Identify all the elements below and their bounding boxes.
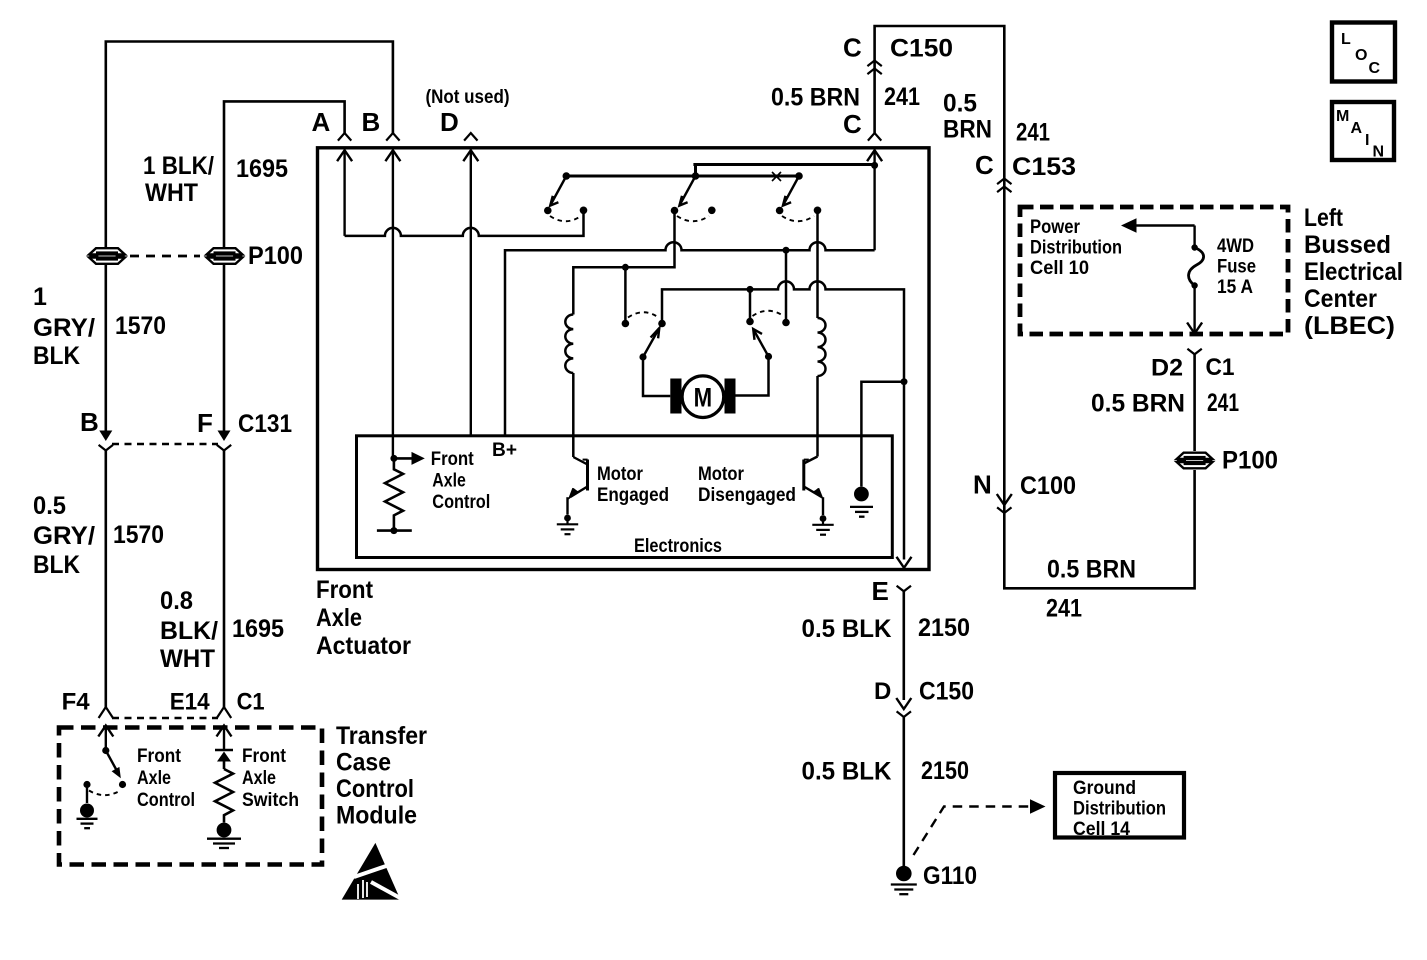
svg-text:BLK: BLK — [33, 342, 80, 370]
svg-text:1570: 1570 — [113, 521, 164, 549]
svg-text:WHT: WHT — [145, 179, 198, 207]
svg-text:Module: Module — [336, 802, 417, 830]
svg-text:Case: Case — [336, 749, 391, 777]
svg-text:GRY/: GRY/ — [33, 522, 95, 550]
svg-text:C1: C1 — [1206, 354, 1235, 381]
svg-text:BLK: BLK — [33, 551, 80, 579]
svg-text:D: D — [874, 678, 891, 705]
svg-text:D2: D2 — [1151, 355, 1183, 382]
svg-text:P100: P100 — [1222, 447, 1278, 475]
svg-text:Axle: Axle — [432, 471, 466, 492]
svg-text:(LBEC): (LBEC) — [1304, 312, 1395, 340]
svg-text:Power: Power — [1030, 217, 1081, 238]
svg-text:GRY/: GRY/ — [33, 314, 95, 342]
svg-text:Control: Control — [336, 775, 414, 803]
svg-text:B: B — [362, 107, 381, 137]
svg-text:241: 241 — [1016, 119, 1050, 147]
svg-text:Distribution: Distribution — [1073, 799, 1166, 820]
svg-text:N: N — [1373, 144, 1385, 161]
svg-text:0.5: 0.5 — [33, 492, 66, 520]
svg-text:Fuse: Fuse — [1217, 257, 1256, 278]
svg-text:B+: B+ — [492, 440, 517, 461]
svg-text:Left: Left — [1304, 204, 1344, 232]
svg-text:0.5 BRN: 0.5 BRN — [1091, 390, 1185, 418]
svg-text:C: C — [1369, 60, 1381, 77]
svg-text:Motor: Motor — [597, 464, 644, 485]
svg-text:Control: Control — [432, 492, 490, 513]
svg-text:Switch: Switch — [242, 790, 299, 811]
svg-text:1570: 1570 — [115, 312, 166, 340]
svg-text:Disengaged: Disengaged — [698, 485, 796, 506]
svg-text:Electrical: Electrical — [1304, 258, 1403, 286]
svg-text:C: C — [975, 150, 994, 180]
svg-text:0.5 BLK: 0.5 BLK — [802, 615, 892, 643]
svg-text:15 A: 15 A — [1217, 277, 1253, 298]
svg-text:1 BLK/: 1 BLK/ — [143, 152, 214, 180]
svg-text:F: F — [197, 408, 213, 438]
svg-text:P100: P100 — [248, 242, 303, 270]
svg-text:Motor: Motor — [698, 464, 745, 485]
svg-text:4WD: 4WD — [1217, 236, 1254, 257]
svg-text:Center: Center — [1304, 285, 1377, 313]
svg-text:C1: C1 — [237, 689, 265, 716]
svg-text:C131: C131 — [238, 410, 292, 438]
svg-text:Front: Front — [316, 576, 374, 604]
svg-text:Front: Front — [242, 746, 287, 767]
svg-text:D: D — [440, 107, 459, 137]
svg-text:Ground: Ground — [1073, 778, 1136, 799]
svg-text:2150: 2150 — [918, 614, 970, 642]
svg-text:Engaged: Engaged — [597, 485, 669, 506]
svg-text:G110: G110 — [923, 862, 977, 890]
svg-text:BLK/: BLK/ — [160, 617, 218, 645]
svg-text:M: M — [1336, 108, 1349, 125]
svg-text:1: 1 — [33, 283, 47, 311]
svg-text:241: 241 — [1046, 595, 1082, 623]
svg-text:Front: Front — [431, 449, 475, 470]
svg-text:C153: C153 — [1012, 153, 1076, 181]
svg-text:Actuator: Actuator — [316, 632, 411, 660]
svg-text:A: A — [1351, 120, 1363, 137]
svg-text:1695: 1695 — [232, 615, 284, 643]
svg-text:0.5 BRN: 0.5 BRN — [771, 84, 860, 112]
svg-text:1695: 1695 — [236, 155, 288, 183]
svg-text:Transfer: Transfer — [336, 722, 427, 750]
svg-text:Cell 14: Cell 14 — [1073, 819, 1130, 840]
svg-text:0.5: 0.5 — [943, 90, 977, 118]
svg-text:WHT: WHT — [160, 645, 215, 673]
svg-text:241: 241 — [884, 83, 920, 111]
svg-text:241: 241 — [1207, 389, 1239, 417]
svg-text:2150: 2150 — [921, 757, 969, 785]
svg-text:0.8: 0.8 — [160, 587, 193, 615]
svg-text:C: C — [843, 109, 862, 139]
svg-text:C: C — [843, 33, 862, 63]
svg-text:Axle: Axle — [316, 604, 362, 632]
svg-text:F4: F4 — [62, 689, 91, 716]
svg-text:Cell 10: Cell 10 — [1030, 258, 1089, 279]
svg-text:C150: C150 — [890, 35, 953, 63]
svg-text:0.5 BRN: 0.5 BRN — [1047, 556, 1136, 584]
svg-text:Axle: Axle — [137, 768, 171, 789]
svg-text:0.5 BLK: 0.5 BLK — [802, 758, 892, 786]
svg-text:Control: Control — [137, 790, 195, 811]
svg-text:Axle: Axle — [242, 768, 276, 789]
svg-text:E: E — [872, 576, 889, 606]
svg-text:BRN: BRN — [943, 116, 992, 144]
svg-text:A: A — [312, 107, 331, 137]
svg-text:(Not used): (Not used) — [426, 87, 510, 108]
svg-text:C150: C150 — [919, 678, 974, 706]
svg-text:Electronics: Electronics — [634, 536, 722, 557]
svg-text:M: M — [694, 383, 713, 413]
svg-text:B: B — [80, 407, 99, 437]
svg-text:Front: Front — [137, 746, 182, 767]
svg-text:C100: C100 — [1020, 472, 1076, 500]
svg-text:O: O — [1355, 47, 1367, 64]
svg-text:I: I — [1365, 132, 1369, 149]
svg-text:N: N — [973, 470, 992, 500]
svg-text:L: L — [1341, 31, 1351, 48]
svg-text:Bussed: Bussed — [1304, 231, 1391, 259]
svg-text:E14: E14 — [170, 689, 211, 716]
svg-text:Distribution: Distribution — [1030, 238, 1122, 259]
